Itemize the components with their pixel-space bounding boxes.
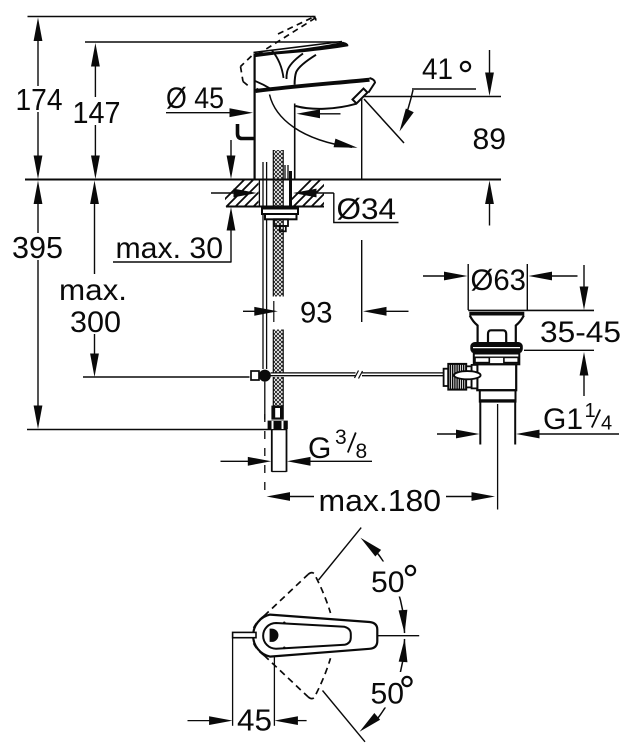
svg-text:8: 8 bbox=[356, 440, 368, 463]
svg-text:Ø34: Ø34 bbox=[337, 193, 397, 226]
svg-text:300: 300 bbox=[70, 306, 121, 339]
svg-text:41: 41 bbox=[422, 53, 453, 86]
svg-text:35-45: 35-45 bbox=[540, 316, 621, 349]
svg-text:Ø63: Ø63 bbox=[471, 264, 527, 297]
svg-text:G: G bbox=[308, 432, 331, 465]
svg-text:G1: G1 bbox=[543, 403, 583, 436]
svg-text:50: 50 bbox=[371, 678, 405, 711]
svg-text:max.: max. bbox=[59, 274, 127, 307]
svg-text:395: 395 bbox=[12, 230, 63, 265]
svg-text:1: 1 bbox=[585, 400, 596, 422]
svg-text:93: 93 bbox=[300, 297, 333, 330]
svg-text:50: 50 bbox=[371, 566, 405, 599]
svg-text:max. 30: max. 30 bbox=[116, 232, 224, 265]
svg-text:174: 174 bbox=[16, 82, 63, 117]
svg-text:45: 45 bbox=[237, 703, 272, 738]
svg-text:89: 89 bbox=[473, 123, 507, 156]
svg-text:4: 4 bbox=[601, 413, 612, 435]
svg-text:max.180: max.180 bbox=[319, 483, 442, 518]
svg-text:Ø 45: Ø 45 bbox=[166, 82, 224, 115]
svg-text:147: 147 bbox=[73, 95, 121, 130]
svg-text:3: 3 bbox=[335, 426, 347, 449]
